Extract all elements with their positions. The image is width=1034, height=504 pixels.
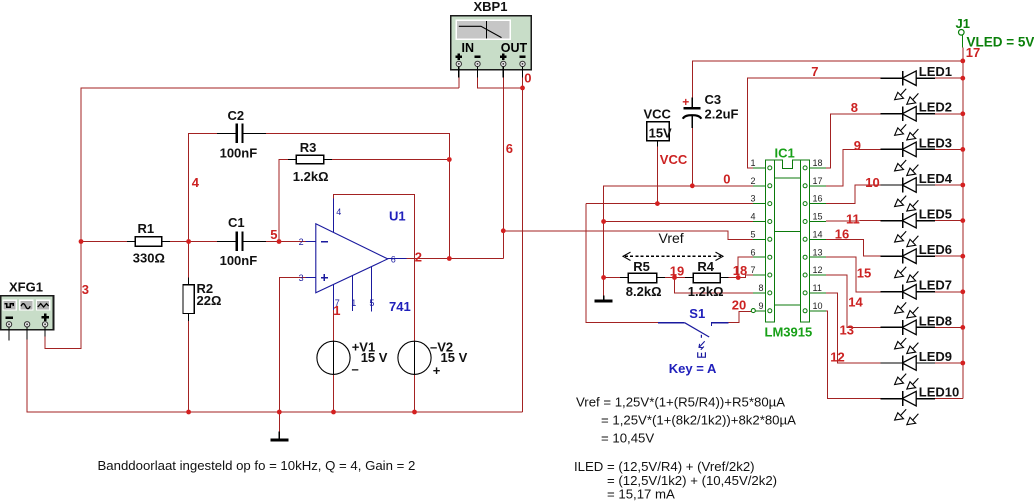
svg-text:4: 4 — [192, 175, 200, 190]
wire S1 right to LM3915 pin9 net20 — [729, 311, 752, 322]
svg-text:C1: C1 — [228, 215, 245, 230]
svg-text:3: 3 — [299, 273, 304, 283]
svg-text:2: 2 — [299, 237, 304, 247]
svg-text:13: 13 — [840, 322, 854, 337]
svg-text:1: 1 — [333, 303, 340, 318]
svg-text:J1: J1 — [956, 16, 970, 31]
svg-text:= 15,17 mA: = 15,17 mA — [607, 486, 675, 501]
wire R1 left — [81, 241, 127, 243]
svg-text:+: + — [682, 95, 689, 109]
svg-text:LED3: LED3 — [919, 135, 952, 150]
svg-text:IC1: IC1 — [775, 146, 795, 161]
svg-text:LED10: LED10 — [919, 385, 959, 400]
svg-text:17: 17 — [813, 176, 823, 186]
svg-text:0: 0 — [723, 172, 730, 187]
dc source V1 — [317, 339, 388, 376]
wire V1 bottom to rail — [333, 374, 335, 412]
svg-text:IN: IN — [462, 41, 475, 55]
junction VCC on pin3 line — [655, 201, 660, 206]
svg-text:12: 12 — [813, 265, 823, 275]
wire net VCC to LM3915 pin3 — [586, 203, 753, 205]
wire R2 bottom to rail — [188, 321, 190, 413]
svg-text:LED8: LED8 — [919, 313, 952, 328]
junction C3 line on VLED bus — [960, 59, 965, 64]
svg-text:6: 6 — [506, 141, 513, 156]
junction ground stub on rail — [277, 410, 282, 415]
svg-text:18: 18 — [733, 263, 747, 278]
svg-text:R4: R4 — [697, 259, 714, 274]
svg-text:2: 2 — [751, 176, 756, 186]
wire VLED bus J1 down to LED10 — [962, 48, 964, 399]
wire C1 left — [189, 241, 217, 243]
junction V2 on rail — [412, 410, 417, 415]
svg-text:LED5: LED5 — [919, 207, 952, 222]
svg-text:330Ω: 330Ω — [133, 251, 165, 266]
svg-text:VCC: VCC — [644, 106, 672, 121]
svg-text:R5: R5 — [633, 259, 650, 274]
svg-text:LED4: LED4 — [919, 171, 953, 186]
svg-text:S1: S1 — [689, 306, 705, 321]
wire C3 bottom to net0 — [691, 128, 693, 186]
wire node5 up to R3 left — [279, 160, 289, 242]
wire net0 XFG1 common to ground rail — [27, 339, 522, 412]
svg-text:16: 16 — [835, 226, 849, 241]
resistor R5 — [620, 259, 665, 299]
wire LM3915 pin10 to LED10 — [826, 311, 881, 399]
svg-text:12: 12 — [830, 349, 844, 364]
junction C3 on net0 — [690, 183, 695, 188]
svg-text:R1: R1 — [138, 221, 155, 236]
svg-text:741: 741 — [389, 299, 411, 314]
function generator XFG1 — [1, 280, 54, 341]
svg-text:C3: C3 — [705, 92, 722, 107]
svg-text:10: 10 — [813, 301, 823, 311]
svg-text:5: 5 — [751, 229, 756, 239]
junctions LED rows on VLED bus — [960, 76, 965, 81]
connector J1 VLED — [956, 16, 1034, 49]
svg-text:3: 3 — [751, 194, 756, 204]
svg-text:VCC: VCC — [660, 152, 688, 167]
svg-text:8: 8 — [851, 100, 858, 115]
op-amp U1 741 — [305, 199, 406, 312]
diode LED6 — [881, 249, 936, 283]
wire XBP1 IN- to OUT- — [478, 77, 523, 88]
resistor R4 — [685, 259, 729, 299]
diode LED1 — [881, 71, 936, 105]
svg-text:4: 4 — [336, 207, 341, 217]
junction gnd vertical R5 — [601, 275, 606, 280]
wire op-amp pin4 supply to V2 top — [334, 195, 415, 342]
wire V2 bottom to rail — [414, 374, 416, 412]
svg-text:7: 7 — [751, 265, 756, 275]
junction signal branch to pin5 — [501, 228, 506, 233]
wire node5 to inverting input — [279, 241, 306, 243]
svg-text:–: – — [352, 361, 359, 376]
junction gnd vertical pin4 line — [601, 219, 606, 224]
wire net18 to LM3915 pin7 — [738, 275, 753, 278]
diode LED4 — [881, 178, 936, 212]
svg-text:15 V: 15 V — [361, 350, 388, 365]
wire input node to XBP1 IN+ — [81, 88, 459, 242]
wire net2 signal to LM3915 pin5 — [503, 231, 753, 240]
wire non-inverting input to ground rail — [279, 278, 305, 413]
svg-text:C2: C2 — [228, 108, 245, 123]
svg-text:XFG1: XFG1 — [9, 280, 43, 295]
wire R1 right to node4 — [170, 241, 189, 243]
LM3915 pin stubs right — [810, 168, 827, 311]
svg-text:+: + — [433, 363, 441, 378]
wire LM3915 pin16 to LED4 — [826, 185, 881, 204]
diode LED9 — [881, 356, 936, 390]
wire LM3915 pin18 to LED2 — [826, 114, 881, 168]
LM3915 pin numbers right — [813, 158, 823, 311]
svg-text:= 10,45V: = 10,45V — [601, 431, 654, 446]
svg-text:17: 17 — [966, 45, 980, 60]
junction V1 on rail — [331, 410, 336, 415]
junction net18 R4 right — [736, 275, 741, 280]
svg-text:3: 3 — [82, 282, 89, 297]
wire VCC net down to switch S1 — [586, 204, 658, 323]
svg-text:2: 2 — [415, 249, 422, 264]
svg-text:8.2kΩ: 8.2kΩ — [626, 284, 662, 299]
wire net0 to LM3915 pin4 divider low — [604, 221, 753, 223]
junction XBP1 IN-/OUT- — [520, 86, 525, 91]
wire C1 right to node5 — [266, 241, 280, 243]
svg-text:ILED = (12,5V/R4) + (Vref/2k2): ILED = (12,5V/R4) + (Vref/2k2) — [574, 459, 755, 474]
wire LM3915 pin12 to LED8 — [826, 275, 881, 327]
diode LED7 — [881, 284, 936, 318]
vref dashed arrow — [623, 252, 723, 260]
capacitor C3 polarized — [682, 92, 738, 128]
diode LED8 — [881, 320, 936, 354]
svg-text:OUT: OUT — [501, 41, 528, 55]
svg-text:18: 18 — [813, 158, 823, 168]
wire XBP1 OUT- net0 down to rail — [522, 77, 524, 412]
wire op-amp output net2 — [406, 258, 503, 260]
svg-text:R3: R3 — [300, 140, 317, 155]
LM3915 pin numbers left — [751, 158, 764, 311]
svg-text:6: 6 — [751, 247, 756, 257]
node 5 junction C1/R3 — [277, 239, 282, 244]
node input junction — [79, 239, 84, 244]
dc source V2 — [398, 339, 468, 378]
svg-text:1.2kΩ: 1.2kΩ — [293, 169, 329, 184]
svg-text:14: 14 — [813, 229, 823, 239]
svg-text:15 V: 15 V — [441, 350, 468, 365]
junction R3 right on feedback — [447, 157, 452, 162]
svg-text:11: 11 — [846, 211, 860, 226]
svg-text:U1: U1 — [389, 208, 406, 223]
svg-text:5: 5 — [270, 227, 277, 242]
resistor R2 — [183, 278, 221, 321]
svg-text:6: 6 — [391, 254, 396, 264]
svg-text:100nF: 100nF — [220, 145, 258, 160]
wire net19 R5 to R4 — [665, 277, 686, 279]
diode LED2 — [881, 106, 936, 140]
diode LED5 — [881, 213, 936, 247]
svg-text:Vref = 1,25V*(1+(R5/R4))+R5*80: Vref = 1,25V*(1+(R5/R4))+R5*80µA — [576, 395, 785, 410]
ground main — [270, 432, 288, 440]
svg-text:22Ω: 22Ω — [197, 293, 222, 308]
wire net4 C2 left vertical — [189, 134, 217, 242]
svg-text:20: 20 — [732, 298, 746, 313]
svg-text:15V: 15V — [649, 125, 672, 140]
capacitor C1 — [217, 215, 266, 268]
wire net18 to LM3915 pin6 — [738, 257, 753, 277]
wire R3 right to feedback vertical — [332, 159, 449, 161]
switch S1 — [658, 323, 729, 358]
IC1 LM3915 DIP package — [765, 160, 809, 322]
wire LM3915 pin13 to LED7 — [826, 257, 881, 292]
svg-text:4: 4 — [751, 212, 756, 222]
svg-text:7: 7 — [811, 64, 818, 79]
svg-text:13: 13 — [813, 247, 823, 257]
LM3915 pin circles — [768, 166, 807, 313]
LM3915 pin 9 open terminal circle — [751, 309, 755, 313]
junction R2 on rail — [186, 410, 191, 415]
wire XBP1 OUT+ net6 down to op-amp output — [502, 77, 504, 259]
svg-text:16: 16 — [813, 194, 823, 204]
svg-text:LED9: LED9 — [919, 349, 952, 364]
svg-text:= 1,25V*(1+(8k2/1k2))+8k2*80µA: = 1,25V*(1+(8k2/1k2))+8k2*80µA — [601, 413, 796, 428]
svg-text:LED1: LED1 — [919, 64, 952, 79]
ground LM3915 — [595, 296, 613, 302]
svg-text:15: 15 — [857, 265, 871, 280]
svg-text:LED7: LED7 — [919, 278, 952, 293]
svg-text:Vref: Vref — [659, 230, 684, 246]
resistor R3 — [288, 140, 332, 184]
svg-text:Key = A: Key = A — [669, 361, 717, 376]
wire LED right stubs to bus — [935, 77, 963, 79]
svg-text:1: 1 — [751, 158, 756, 168]
node 4 junction R1/C1/R2 — [186, 239, 191, 244]
diode LED3 — [881, 142, 936, 176]
junction feedback on output — [447, 256, 452, 261]
wire net19 junction to LM3915 pin8 — [675, 278, 753, 293]
diode LED10 — [881, 391, 936, 425]
svg-text:1.2kΩ: 1.2kΩ — [688, 284, 724, 299]
wire C2 right to feedback vertical — [266, 134, 450, 259]
svg-text:9: 9 — [759, 301, 764, 311]
svg-text:2.2uF: 2.2uF — [705, 106, 739, 121]
svg-text:XBP1: XBP1 — [474, 0, 508, 14]
svg-text:LM3915: LM3915 — [765, 325, 813, 340]
svg-text:LED6: LED6 — [919, 242, 952, 257]
capacitor C2 — [217, 108, 266, 161]
svg-text:Banddoorlaat ingesteld op fo =: Banddoorlaat ingesteld op fo = 10kHz, Q … — [98, 458, 416, 473]
svg-text:8: 8 — [759, 283, 764, 293]
svg-text:100nF: 100nF — [220, 253, 258, 268]
junction net19 R5/R4 — [672, 275, 677, 280]
wire net7 LM3915 pin1 to LED1 — [748, 78, 881, 168]
wire LM3915 pin11 to LED9 — [826, 293, 881, 363]
wire LM3915 pin14 to LED6 — [826, 239, 881, 256]
svg-text:LED2: LED2 — [919, 100, 952, 115]
LM3915 pin stubs left — [753, 168, 765, 311]
vcc supply — [644, 106, 688, 167]
svg-text:15: 15 — [813, 212, 823, 222]
svg-text:9: 9 — [854, 138, 861, 153]
wire net0 to LM3915 pin2 — [604, 186, 753, 297]
resistor R1 — [127, 221, 170, 266]
wire C3 top to VLED bus — [692, 61, 963, 98]
wire LM3915 pin15 to LED5 — [826, 220, 881, 222]
svg-text:14: 14 — [848, 294, 863, 309]
wire R5 left — [604, 277, 620, 279]
svg-text:0: 0 — [524, 70, 531, 85]
svg-text:19: 19 — [670, 263, 684, 278]
wire net3 XFG1 plus to input node — [45, 242, 81, 349]
wire XBP1 IN+ stub — [458, 77, 460, 88]
svg-text:10: 10 — [865, 175, 879, 190]
wire LM3915 pin17 to LED3 — [826, 149, 881, 185]
wire ground stub below rail — [278, 412, 280, 432]
wire R2 top — [188, 242, 190, 278]
wire net18 R4 right junction — [729, 277, 739, 279]
svg-text:5: 5 — [369, 298, 374, 308]
svg-text:1: 1 — [351, 298, 356, 308]
wire op-amp pin7 to V1 top — [333, 310, 335, 342]
bode plotter XBP1 — [451, 0, 531, 78]
svg-text:11: 11 — [813, 283, 822, 293]
wire VCC supply drop — [656, 147, 658, 204]
